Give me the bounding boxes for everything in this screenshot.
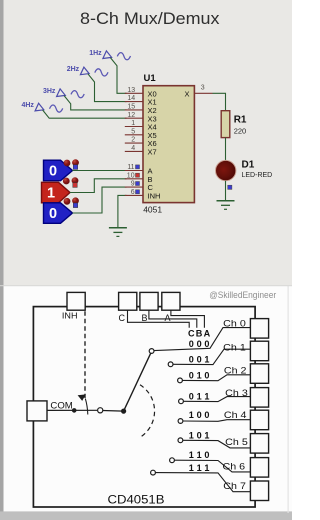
svg-text:15: 15	[127, 104, 135, 111]
svg-text:Ch 4: Ch 4	[224, 410, 247, 421]
svg-text:C: C	[119, 313, 126, 323]
code 100	[189, 410, 210, 420]
svg-text:0: 0	[197, 430, 202, 440]
line C box to header	[128, 310, 190, 328]
svg-text:1: 1	[189, 430, 194, 440]
label Ch 1	[223, 342, 246, 353]
code 101	[189, 430, 210, 440]
label Ch 2	[224, 366, 247, 377]
svg-text:0: 0	[197, 410, 202, 420]
code 010	[189, 371, 210, 381]
svg-text:13: 13	[127, 87, 135, 94]
wire 4Hz to chip	[43, 110, 127, 118]
svg-text:INH: INH	[148, 192, 161, 201]
svg-text:0: 0	[189, 355, 194, 365]
svg-text:1: 1	[197, 391, 202, 401]
label Ch 6	[223, 461, 246, 472]
ground (LED)	[217, 201, 235, 210]
svg-text:5: 5	[131, 128, 135, 135]
svg-text:C: C	[188, 328, 195, 338]
wire channel 6	[174, 460, 250, 472]
terminal box INH	[67, 292, 85, 310]
pin 3 (X out)	[184, 84, 212, 98]
svg-text:0: 0	[189, 391, 194, 401]
svg-text:0: 0	[189, 339, 194, 349]
terminal box B	[140, 292, 158, 310]
wire 1Hz to chip	[110, 58, 126, 94]
svg-text:1: 1	[189, 450, 194, 460]
svg-text:1: 1	[204, 391, 209, 401]
contact node Ch 6	[170, 458, 175, 463]
code 111	[189, 463, 210, 473]
svg-text:1: 1	[189, 463, 194, 473]
svg-text:1Hz: 1Hz	[89, 50, 102, 57]
label CD4051B	[108, 495, 165, 507]
svg-text:220: 220	[234, 126, 247, 135]
svg-text:0: 0	[197, 355, 202, 365]
wire D1 to ground	[225, 181, 227, 200]
label Ch 3	[225, 388, 248, 399]
svg-text:Ch 6: Ch 6	[223, 461, 246, 472]
svg-text:1: 1	[204, 355, 209, 365]
label B	[142, 313, 148, 323]
svg-text:0: 0	[204, 371, 209, 381]
svg-text:12: 12	[127, 112, 135, 119]
junction dot COM	[72, 408, 77, 413]
wire COM to switch	[47, 409, 97, 411]
generator 1Hz symbol	[89, 50, 130, 60]
terminal box A	[162, 292, 180, 310]
label C	[119, 313, 126, 323]
label 4051	[143, 205, 162, 215]
svg-text:Ch 1: Ch 1	[223, 342, 246, 353]
svg-text:0: 0	[49, 206, 57, 222]
svg-text:1: 1	[197, 371, 202, 381]
resistor R1	[221, 111, 230, 138]
code 110	[189, 450, 210, 460]
svg-text:D1: D1	[242, 159, 255, 170]
svg-text:9: 9	[131, 181, 135, 188]
wire channel 2	[182, 375, 250, 381]
terminal box COM	[27, 401, 47, 421]
title text	[80, 10, 220, 28]
svg-text:0: 0	[204, 410, 209, 420]
pin 1 (X4)	[125, 120, 157, 132]
pin 12 (X3)	[125, 112, 157, 124]
wire channel 0	[154, 328, 250, 351]
svg-text:0: 0	[197, 339, 202, 349]
line B box to header	[149, 310, 197, 328]
switch pole circle	[98, 408, 103, 413]
label Ch 0	[223, 319, 246, 330]
label A	[165, 313, 171, 323]
contact node Ch 0	[149, 349, 154, 354]
svg-text:1: 1	[197, 463, 202, 473]
contact node Ch 4	[178, 419, 183, 424]
wire channel 3	[183, 397, 250, 402]
label COM	[50, 401, 72, 411]
label Ch 4	[224, 410, 247, 421]
header code 000	[189, 339, 210, 349]
svg-text:8-Ch Mux/Demux: 8-Ch Mux/Demux	[80, 10, 220, 28]
svg-text:A: A	[165, 313, 171, 323]
terminal box Ch 0	[250, 319, 268, 339]
CD4051B outer box	[33, 307, 255, 507]
label R1	[234, 114, 247, 125]
svg-text:2: 2	[131, 137, 135, 144]
contact node Ch 1	[168, 362, 173, 367]
dashed wiper swing arc	[139, 385, 154, 438]
terminal box Ch 6	[250, 458, 268, 478]
terminal box Ch 5	[250, 434, 268, 454]
node state square (LED)	[228, 185, 232, 189]
generator 4Hz symbol	[21, 102, 62, 112]
svg-text:Ch 7: Ch 7	[223, 481, 246, 492]
contact node Ch 5	[178, 438, 183, 443]
svg-text:LED-RED: LED-RED	[242, 172, 273, 179]
svg-text:B: B	[142, 313, 148, 323]
svg-text:A: A	[204, 328, 211, 338]
svg-text:U1: U1	[144, 73, 157, 84]
svg-text:COM: COM	[50, 401, 72, 411]
terminal box C	[119, 292, 137, 310]
wire B-state to pin 10	[70, 179, 127, 193]
code 001	[189, 355, 210, 365]
pin 5 (X5)	[125, 128, 157, 140]
ground (INH)	[109, 228, 127, 237]
svg-text:0: 0	[189, 371, 194, 381]
svg-text:0: 0	[204, 450, 209, 460]
code 011	[189, 391, 210, 401]
pin 9 (C)	[125, 181, 154, 193]
svg-text:4Hz: 4Hz	[21, 102, 34, 109]
wire pole to pivot	[103, 410, 124, 413]
wire channel 4	[183, 420, 251, 422]
terminal box Ch 4	[250, 410, 268, 430]
label 220	[234, 126, 247, 135]
wire INH to ground	[118, 195, 127, 227]
svg-text:1: 1	[197, 450, 202, 460]
svg-text:INH: INH	[62, 310, 78, 320]
wire A-state to pin 11	[73, 170, 127, 172]
terminal box Ch 2	[250, 364, 268, 384]
label INH	[62, 310, 78, 320]
label Ch 7	[223, 481, 246, 492]
pin 6 (INH)	[125, 189, 161, 201]
generator 3Hz symbol	[43, 88, 84, 98]
svg-text:B: B	[196, 328, 203, 338]
INH arrow	[78, 394, 88, 414]
svg-text:1: 1	[204, 463, 209, 473]
svg-text:1: 1	[204, 430, 209, 440]
svg-text:0: 0	[204, 339, 209, 349]
svg-text:3: 3	[201, 84, 205, 91]
wire C-state to pin 9	[73, 187, 127, 213]
switch wiper to Ch0	[124, 353, 151, 411]
svg-text:14: 14	[127, 95, 135, 102]
label Ch 5	[225, 437, 248, 448]
watermark @SkilledEngineer	[209, 290, 276, 300]
pin 11 (A)	[125, 164, 153, 176]
contact node Ch 3	[179, 399, 184, 404]
svg-text:6: 6	[131, 189, 135, 196]
svg-text:1: 1	[47, 186, 55, 202]
svg-text:1: 1	[189, 410, 194, 420]
wire X to R1	[213, 93, 226, 110]
terminal box Ch 3	[250, 388, 268, 408]
svg-text:0: 0	[49, 164, 57, 180]
LOGICSTATE 1 (A)	[44, 159, 79, 180]
svg-text:11: 11	[127, 164, 134, 171]
svg-text:4051: 4051	[143, 205, 162, 215]
wire channel 1	[173, 349, 250, 364]
pin 15 (X2)	[125, 104, 157, 116]
svg-text:Ch 2: Ch 2	[224, 366, 247, 377]
pin 2 (X6)	[125, 137, 157, 149]
svg-text:10: 10	[127, 172, 135, 179]
svg-text:Ch 5: Ch 5	[225, 437, 248, 448]
wire 2Hz to chip	[88, 74, 127, 102]
op-amp U1 body (4051 mux)	[143, 86, 194, 203]
contact node Ch 7	[151, 470, 156, 475]
label U1	[144, 73, 157, 84]
wire channel 5	[183, 440, 251, 448]
pin 4 (X7)	[125, 145, 157, 157]
svg-text:2Hz: 2Hz	[67, 66, 80, 73]
dashed INH control line	[84, 311, 86, 398]
svg-text:CD4051B: CD4051B	[108, 495, 165, 507]
svg-text:Ch 0: Ch 0	[223, 319, 246, 330]
line A box to header	[171, 310, 205, 328]
contact node Ch 2	[178, 378, 183, 383]
pivot dot	[121, 409, 126, 414]
generator 2Hz symbol	[67, 66, 108, 76]
pin 10 (B)	[125, 172, 153, 184]
label D1	[242, 159, 255, 170]
wire channel 7	[155, 473, 250, 492]
header C B A	[188, 328, 211, 338]
pin 14 (X1)	[125, 95, 157, 107]
svg-text:X7: X7	[148, 148, 157, 157]
svg-text:1: 1	[131, 120, 135, 127]
LOGICSTATE 3 (C)	[44, 197, 79, 223]
svg-text:X: X	[184, 89, 189, 98]
label LED-RED	[242, 172, 273, 179]
svg-text:Ch 3: Ch 3	[225, 388, 248, 399]
pin 13 (X0)	[125, 87, 157, 99]
svg-text:R1: R1	[234, 114, 247, 125]
svg-text:@SkilledEngineer: @SkilledEngineer	[209, 290, 276, 300]
terminal box Ch 7	[250, 481, 268, 501]
svg-text:3Hz: 3Hz	[43, 88, 56, 95]
terminal box Ch 1	[250, 341, 268, 361]
diode D1 (LED-RED)	[216, 160, 236, 180]
LOGICSTATE 2 (B)	[42, 177, 79, 203]
svg-text:4: 4	[131, 145, 135, 152]
wire 3Hz to chip	[64, 96, 126, 110]
wire R1 to D1	[225, 138, 227, 161]
